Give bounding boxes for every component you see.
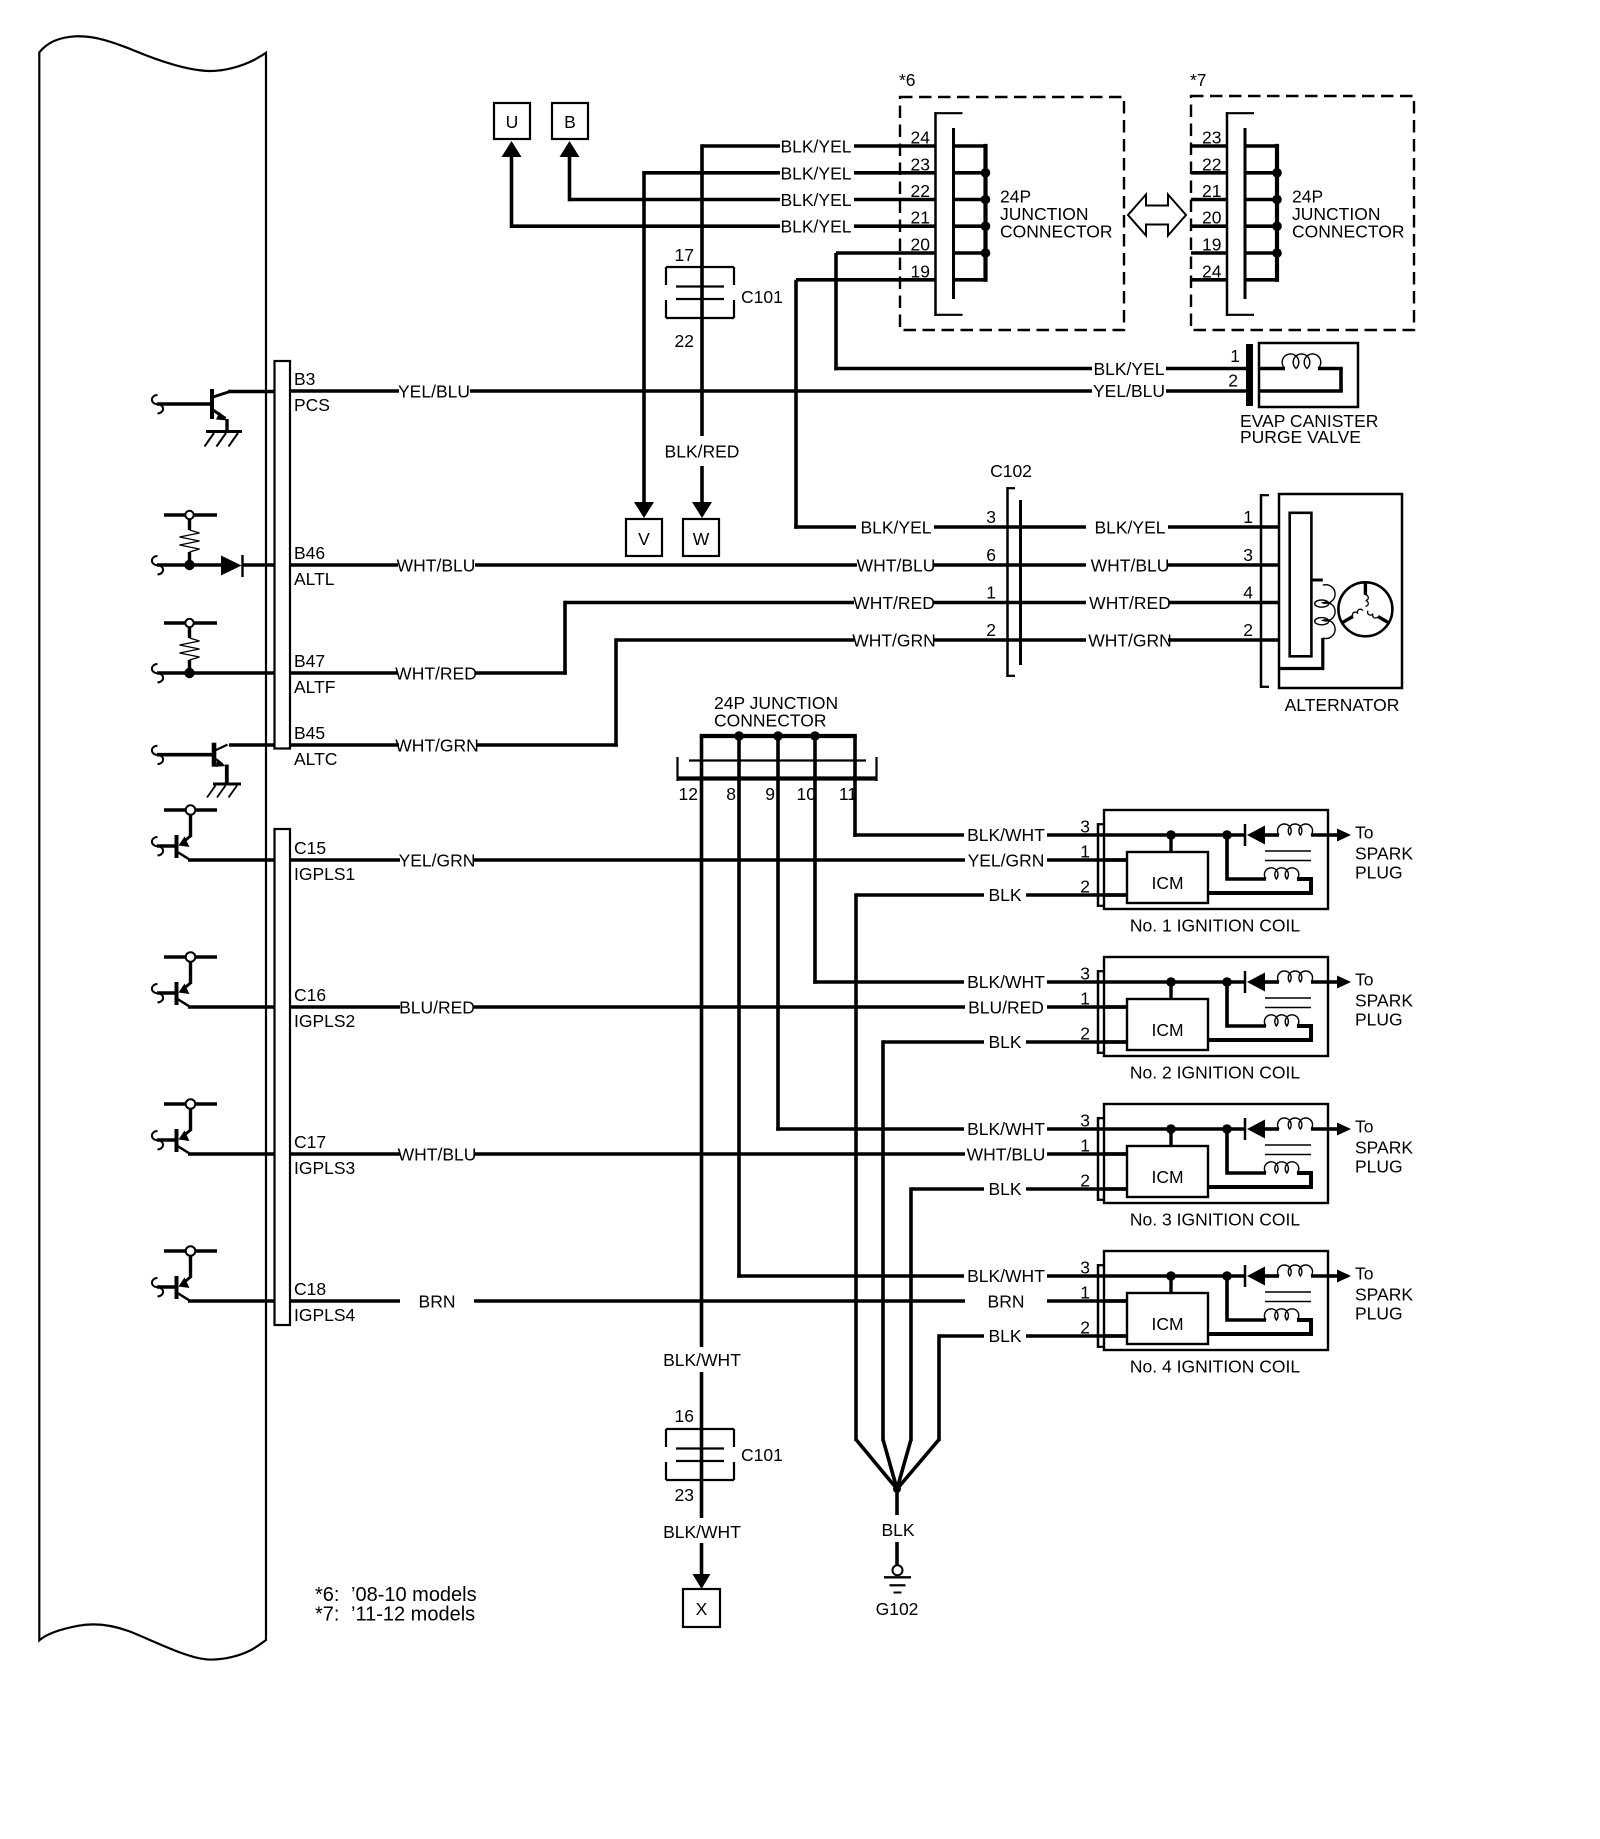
pin leads *7 [1191,146,1227,280]
label BLK/YEL (C102 right) [1094,518,1289,538]
wire BLK/YEL pin 23 row [644,171,936,175]
svg-text:To: To [1355,1117,1373,1137]
svg-text:PCS: PCS [294,395,330,415]
svg-text:C15: C15 [294,838,326,858]
transistor Q6 (IGPLS4 driver, PNP) [152,1246,217,1300]
label BLK/WHT (No.1 coil pin3) [967,825,1045,845]
svg-text:C102: C102 [990,461,1032,481]
diode D1 (ALTL) [221,555,243,577]
pin C16 / IGPLS2 labels [294,985,355,1031]
wire BLK/YEL pin 24 row [702,144,936,148]
pin 2 (EVAP) [1228,371,1238,391]
junction pin numbers 12/8/9/10/11 [679,784,857,804]
svg-text:ICM: ICM [1151,1167,1183,1187]
svg-text:WHT/GRN: WHT/GRN [852,631,936,651]
svg-text:YEL/BLU: YEL/BLU [398,382,470,402]
svg-text:WHT/GRN: WHT/GRN [1088,631,1172,651]
svg-text:1: 1 [1230,346,1240,366]
wire BLK (No.3 coil pin2 to G102) [911,1179,1127,1441]
svg-text:4: 4 [1243,583,1253,603]
svg-text:BLK/WHT: BLK/WHT [663,1522,741,1542]
svg-text:PLUG: PLUG [1355,1157,1403,1177]
label BLK/RED [665,442,740,462]
svg-text:SPARK: SPARK [1355,991,1413,1011]
svg-text:WHT/BLU: WHT/BLU [398,1145,477,1165]
pin C18 / IGPLS4 labels [294,1279,356,1325]
svg-text:No. 4 IGNITION COIL: No. 4 IGNITION COIL [1130,1357,1300,1377]
wire pin10 vertical (to No.2 coil) [813,780,964,984]
svg-text:C17: C17 [294,1132,326,1152]
svg-text:1: 1 [1243,507,1253,527]
svg-text:24: 24 [911,128,931,148]
ground G102 [876,1565,919,1619]
svg-text:17: 17 [675,245,694,265]
wire pin8 vertical (to No.4 coil) [737,780,964,1278]
svg-text:To: To [1355,1264,1373,1284]
svg-text:PLUG: PLUG [1355,1304,1403,1324]
svg-text:IGPLS2: IGPLS2 [294,1011,355,1031]
svg-text:X: X [696,1599,708,1619]
svg-text:BLK/YEL: BLK/YEL [780,190,851,210]
wire BLK/WHT to X [663,1480,741,1589]
svg-text:1: 1 [986,583,996,603]
svg-text:No. 3 IGNITION COIL: No. 3 IGNITION COIL [1130,1210,1300,1230]
label WHT/BLU (C102 right) [1091,556,1289,576]
ignition coil T1 (No. 1 IGNITION COIL with ICM U4) [1047,810,1328,909]
svg-text:*7: *7 [1190,70,1207,90]
svg-text:BLK/WHT: BLK/WHT [967,972,1045,992]
svg-text:2: 2 [1243,620,1253,640]
svg-text:IGPLS1: IGPLS1 [294,864,355,884]
24P junction connector U3 (middle) [677,731,877,781]
wire B45 collector stub [229,743,274,747]
label No. 3 IGNITION COIL [1130,1210,1300,1230]
label BLK/WHT (No.3 coil pin3) [967,1119,1045,1139]
svg-text:IGPLS4: IGPLS4 [294,1305,356,1325]
svg-text:BLK: BLK [988,1179,1021,1199]
svg-text:8: 8 [726,784,736,804]
pin B47 / ALTF labels [294,651,336,697]
pin leads *6 [796,253,936,280]
label YEL/BLU (EVAP pin2) [1093,381,1247,401]
svg-text:BLK/RED: BLK/RED [665,442,740,462]
svg-text:BLK/YEL: BLK/YEL [1093,359,1164,379]
svg-text:WHT/RED: WHT/RED [853,593,935,613]
pin B46 / ALTL labels [294,543,335,589]
svg-text:ICM: ICM [1151,873,1183,893]
svg-text:BLK: BLK [988,1032,1021,1052]
svg-text:To: To [1355,823,1373,843]
svg-text:V: V [638,529,650,549]
svg-text:U: U [506,112,519,132]
svg-text:16: 16 [675,1406,694,1426]
label BLK/WHT (No.2 coil pin3) [967,972,1045,992]
wire BLK/YEL pin20 to EVAP pin1 [834,253,1092,370]
label 24P JUNCTION CONNECTOR (middle) [714,693,838,731]
ECM connector bracket (C15-C18) [275,829,291,1325]
pin B3 / PCS labels [294,369,330,415]
svg-text:22: 22 [911,181,930,201]
svg-text:’11-12 models: ’11-12 models [351,1604,475,1626]
transistor Q2 (ALTC driver, NPN) [152,743,228,784]
svg-text:ALTF: ALTF [294,677,336,697]
svg-text:BLK/YEL: BLK/YEL [780,137,851,157]
svg-text:BLK/WHT: BLK/WHT [967,1266,1045,1286]
wire WHT/BLU (B46 ALTL to C102 pin6) [290,556,1086,576]
pin B45 / ALTC labels [294,723,337,769]
connector C101 (pins 16/23) [666,1406,783,1505]
svg-text:G102: G102 [876,1599,919,1619]
wire C15 collector stub [188,858,274,862]
svg-text:To: To [1355,970,1373,990]
svg-text:22: 22 [675,331,694,351]
wire YEL/GRN (C15 IGPLS1 to No.1 coil) [290,851,1127,871]
interchange double arrow [1128,195,1186,236]
dashed box *7 [1190,70,1414,330]
wire BLK (No.1 coil pin2 to G102) [856,885,1127,1441]
svg-text:WHT/GRN: WHT/GRN [395,736,479,756]
wire WHT/GRN (B45 ALTC to C102 pin2) [290,631,1086,756]
svg-text:*7:: *7: [315,1604,339,1626]
svg-text:BRN: BRN [419,1292,456,1312]
svg-text:C18: C18 [294,1279,326,1299]
svg-text:B45: B45 [294,723,325,743]
svg-text:*6: *6 [899,70,916,90]
wire pin9 vertical (to No.3 coil) [776,780,964,1131]
pin C17 / IGPLS3 labels [294,1132,355,1178]
label WHT/GRN (C102 right) [1088,631,1289,651]
connector bar EVAP [1246,344,1253,406]
svg-text:CONNECTOR: CONNECTOR [1000,222,1112,242]
svg-text:9: 9 [765,784,775,804]
svg-text:PURGE VALVE: PURGE VALVE [1240,427,1361,447]
svg-text:BRN: BRN [988,1292,1025,1312]
wire BLK/YEL to B (pin 22 row) [560,141,936,201]
svg-text:1: 1 [1080,842,1090,862]
pin C15 / IGPLS1 labels [294,838,355,884]
svg-text:W: W [693,529,710,549]
svg-text:BLU/RED: BLU/RED [399,998,475,1018]
wire BLK/YEL to U (pin 21 row) [502,141,936,228]
svg-text:BLK: BLK [881,1520,914,1540]
wire to spark plug 3 [1328,1117,1413,1177]
resistor R1 with pull-up (B46) [164,511,217,561]
svg-text:BLK/YEL: BLK/YEL [860,518,931,538]
wire to spark plug 1 [1328,823,1413,883]
svg-text:WHT/BLU: WHT/BLU [857,556,936,576]
svg-text:B46: B46 [294,543,325,563]
label BLK/WHT (upper) [663,1350,741,1370]
wire to spark plug 4 [1328,1264,1413,1324]
resistor R2 with pull-up (B47) [164,619,217,669]
wire pin11 vertical (to No.1 coil) [853,780,964,837]
svg-text:WHT/RED: WHT/RED [1089,593,1171,613]
svg-text:21: 21 [911,208,930,228]
svg-text:2: 2 [986,620,996,640]
svg-text:BLK/WHT: BLK/WHT [967,1119,1045,1139]
ignition coil T4 (No. 4 IGNITION COIL with ICM U7) [1047,1251,1328,1350]
svg-text:SPARK: SPARK [1355,1285,1413,1305]
svg-text:SPARK: SPARK [1355,844,1413,864]
wire WHT/BLU (C17 IGPLS3 to No.3 coil) [290,1145,1127,1165]
svg-text:3: 3 [1243,545,1253,565]
label No. 2 IGNITION COIL [1130,1063,1300,1083]
svg-text:BLK/YEL: BLK/YEL [780,217,851,237]
terminal box V [626,519,662,556]
svg-text:IGPLS3: IGPLS3 [294,1158,355,1178]
wire C16 collector stub [188,1005,274,1009]
svg-text:ALTERNATOR: ALTERNATOR [1285,695,1400,715]
ignition coil T3 (No. 3 IGNITION COIL with ICM U6) [1047,1104,1328,1203]
note *6 models [315,1584,477,1606]
pin 1 (EVAP) [1230,346,1240,366]
svg-text:BLK/YEL: BLK/YEL [780,163,851,183]
terminal box W [683,519,719,556]
svg-text:WHT/BLU: WHT/BLU [1091,556,1170,576]
label BLK/WHT (No.4 coil pin3) [967,1266,1045,1286]
transistor Q5 (IGPLS3 driver, PNP) [152,1099,217,1153]
label No. 1 IGNITION COIL [1130,916,1300,936]
wire BLU/RED (C16 IGPLS2 to No.2 coil) [290,998,1127,1018]
svg-text:BLK/YEL: BLK/YEL [1094,518,1165,538]
junction dot B46 [184,560,194,570]
C102 pin numbers right [1243,507,1253,640]
svg-text:CONNECTOR: CONNECTOR [714,711,826,731]
wire BLK/YEL pin19 to C102 pin3 [794,280,856,529]
24P junction connector U1 (*6 08-10 models) [911,112,1113,316]
wire C18 collector stub [188,1299,274,1303]
ECM/PCM boundary (torn page edge) [39,36,266,1659]
svg-text:BLK: BLK [988,885,1021,905]
svg-text:YEL/BLU: YEL/BLU [1093,381,1165,401]
svg-text:BLU/RED: BLU/RED [968,998,1044,1018]
label No. 4 IGNITION COIL [1130,1357,1300,1377]
connector C102 [990,461,1032,677]
svg-text:C16: C16 [294,985,326,1005]
label WHT/RED (C102 right) [1089,593,1289,613]
svg-text:23: 23 [675,1485,694,1505]
svg-text:B3: B3 [294,369,315,389]
svg-text:1: 1 [1080,989,1090,1009]
dashed box *6 [899,70,1124,330]
label BLK/YEL (C102 left) [860,518,1086,538]
ECM connector bracket (B3/B46/B47/B45) [275,361,291,749]
svg-text:PLUG: PLUG [1355,863,1403,883]
svg-text:WHT/BLU: WHT/BLU [967,1145,1046,1165]
svg-text:ICM: ICM [1151,1020,1183,1040]
wire BLK (No.2 coil pin2 to G102) [883,1032,1127,1441]
note *7 models [315,1604,475,1626]
svg-text:WHT/RED: WHT/RED [395,664,477,684]
wire funnel to ground node [856,1440,939,1494]
svg-text:CONNECTOR: CONNECTOR [1292,222,1404,242]
wire BRN (C18 IGPLS4 to No.4 coil) [290,1292,1127,1312]
connector bracket (alternator) [1261,494,1269,688]
terminal box U [494,103,530,139]
transistor Q1 (PCS driver, NPN) [152,389,230,432]
ground (Q1 emitter) [205,432,243,447]
svg-text:C101: C101 [741,287,783,307]
ground (Q2 emitter) [207,784,241,798]
wire BLK (node to G102) [881,1489,914,1565]
svg-text:PLUG: PLUG [1355,1010,1403,1030]
wire BLK/WHT to C101-16 [700,1372,704,1429]
wire WHT/RED (B47 ALTF to C102 pin1) [290,593,1086,684]
wire BLK (No.4 coil pin2 to G102) [939,1326,1127,1441]
svg-text:ALTL: ALTL [294,569,335,589]
svg-text:ALTC: ALTC [294,749,337,769]
transistor Q4 (IGPLS2 driver, PNP) [152,952,217,1006]
svg-text:23: 23 [911,154,930,174]
svg-text:1: 1 [1080,1283,1090,1303]
wire BLK/RED vertical (C101 17-22 to W) [692,144,712,518]
24P junction connector U2 (*7 11-12 models) [1202,112,1404,316]
terminal box X [683,1589,720,1627]
svg-text:SPARK: SPARK [1355,1138,1413,1158]
svg-text:2: 2 [1228,371,1238,391]
label BLK/YEL (EVAP pin1) [1093,359,1247,379]
svg-text:B47: B47 [294,651,325,671]
wire pin12 vertical (to C101 16) [700,780,704,1347]
svg-text:BLK: BLK [988,1326,1021,1346]
svg-text:B: B [564,112,576,132]
wire YEL/BLU (B3 PCS to EVAP pin2) [290,382,1092,402]
svg-text:C101: C101 [741,1445,783,1465]
svg-text:6: 6 [986,545,996,565]
svg-text:WHT/BLU: WHT/BLU [397,556,476,576]
svg-text:BLK/WHT: BLK/WHT [967,825,1045,845]
svg-text:BLK/WHT: BLK/WHT [663,1350,741,1370]
wire B3 collector stub [228,390,274,394]
svg-text:12: 12 [679,784,698,804]
node labels BLK/YEL x4 [780,137,851,237]
alternator [1279,494,1402,715]
wire to spark plug 2 [1328,970,1413,1030]
junction dot B47 [184,668,194,678]
connector C101 (pins 17/22) [666,245,783,351]
wire B47 row left [152,664,274,682]
wire to V (pin 23 vertical) [634,171,654,518]
terminal box B [552,103,588,139]
svg-text:3: 3 [986,507,996,527]
wire C17 collector stub [188,1152,274,1156]
transistor Q3 (IGPLS1 driver, PNP) [152,805,217,859]
wire B46 row left [152,556,274,574]
svg-text:ICM: ICM [1151,1314,1183,1334]
svg-text:No. 2 IGNITION COIL: No. 2 IGNITION COIL [1130,1063,1300,1083]
ignition coil T2 (No. 2 IGNITION COIL with ICM U5) [1047,957,1328,1056]
svg-text:No. 1 IGNITION COIL: No. 1 IGNITION COIL [1130,916,1300,936]
svg-text:1: 1 [1080,1136,1090,1156]
svg-text:YEL/GRN: YEL/GRN [399,851,476,871]
C102 pin numbers left [986,507,996,640]
svg-text:YEL/GRN: YEL/GRN [968,851,1045,871]
solenoid EVAP canister purge valve [1240,343,1378,447]
